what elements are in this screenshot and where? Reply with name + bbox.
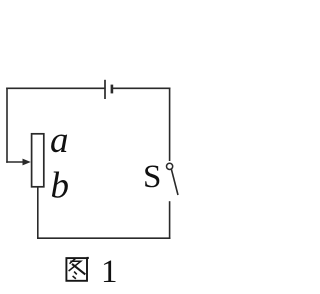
svg-text:S: S [143, 159, 161, 195]
svg-text:a: a [50, 120, 69, 161]
svg-text:1: 1 [101, 254, 118, 289]
svg-text:b: b [51, 166, 70, 207]
